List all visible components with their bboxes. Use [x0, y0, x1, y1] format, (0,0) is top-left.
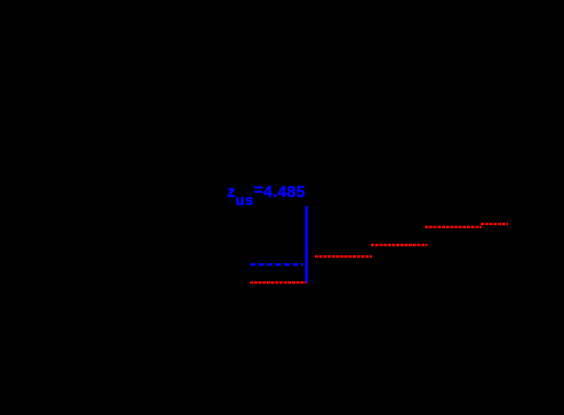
wire red dashed step segment 1 [250, 281, 306, 283]
wire red dashed step segment 5 [481, 223, 508, 225]
wire red dashed step segment 3 [371, 244, 428, 246]
wire red dashed step segment 4 [425, 226, 482, 228]
annotation label z_us=4.485 [227, 185, 306, 201]
wire blue dashed horizontal segment [250, 263, 303, 266]
wire blue vertical line at z_us [305, 206, 308, 283]
wire red dashed step segment 2 [315, 255, 372, 257]
